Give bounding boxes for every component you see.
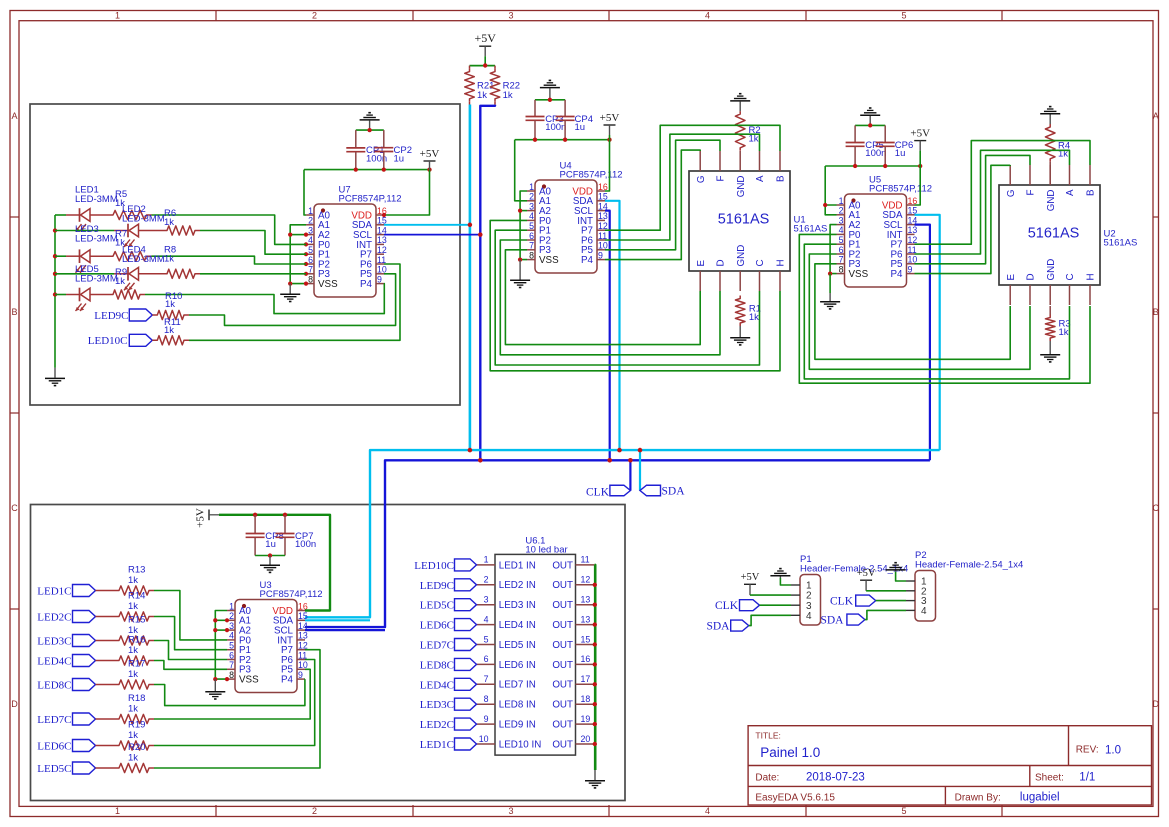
LED LED1 LED-3MM xyxy=(66,208,108,231)
wire SDA bus (blue horizontal) xyxy=(305,460,930,627)
svg-text:1k: 1k xyxy=(128,753,138,764)
led bar OUT pin 18 xyxy=(552,694,594,711)
label LED7C xyxy=(37,714,71,726)
op-amp U5 PCF8574P,112 xyxy=(837,175,933,288)
svg-text:OUT: OUT xyxy=(552,580,573,591)
svg-text:LED5 IN: LED5 IN xyxy=(499,640,536,651)
svg-text:G: G xyxy=(1006,190,1017,198)
LED LED4 LED-3MM xyxy=(114,267,162,290)
svg-text:10: 10 xyxy=(479,734,489,744)
svg-text:16: 16 xyxy=(581,654,591,664)
svg-text:TITLE:: TITLE: xyxy=(755,731,781,741)
svg-text:LED4C: LED4C xyxy=(420,679,454,691)
svg-text:3: 3 xyxy=(839,215,844,225)
svg-text:LED-3MM: LED-3MM xyxy=(75,194,118,205)
svg-text:10 led bar: 10 led bar xyxy=(525,545,567,556)
resistor R3 1k xyxy=(1045,306,1055,341)
svg-text:PCF8574P,112: PCF8574P,112 xyxy=(869,184,932,195)
capacitor CP4 1u xyxy=(556,100,593,140)
svg-text:LED-3MM: LED-3MM xyxy=(122,254,165,265)
node U7 bus VSS xyxy=(288,281,292,285)
ground (above R2) xyxy=(730,94,750,111)
svg-text:1: 1 xyxy=(115,11,120,21)
svg-text:F: F xyxy=(1026,189,1037,195)
label R8 xyxy=(164,245,176,265)
svg-text:8: 8 xyxy=(484,694,489,704)
svg-text:A: A xyxy=(1065,189,1076,196)
svg-text:8: 8 xyxy=(229,670,234,680)
svg-text:9: 9 xyxy=(298,670,303,680)
wire LED cathode bus (left) xyxy=(54,215,56,368)
node U7 pin5 xyxy=(304,252,308,256)
led bar OUT pin 11 xyxy=(552,555,594,572)
svg-text:LED3C: LED3C xyxy=(37,636,71,648)
svg-text:GND: GND xyxy=(736,176,747,198)
svg-text:8: 8 xyxy=(308,274,313,284)
svg-text:LED2C: LED2C xyxy=(420,719,454,731)
svg-text:PCF8574P,112: PCF8574P,112 xyxy=(560,170,623,181)
wire U3 ground bus xyxy=(215,611,227,680)
label R17 xyxy=(128,659,145,681)
net flag LED3C (led bar) xyxy=(455,698,477,710)
label LED1C (led bar) xyxy=(420,739,454,751)
led bar LED1 IN label xyxy=(499,560,536,571)
svg-text:1k: 1k xyxy=(165,299,175,310)
svg-text:+5V: +5V xyxy=(910,127,930,139)
wire LED1C to U3 P0 xyxy=(154,591,227,640)
svg-text:OUT: OUT xyxy=(552,739,573,750)
wire LED2 row left xyxy=(55,230,114,232)
svg-text:CLK: CLK xyxy=(715,600,739,612)
svg-text:LED8C: LED8C xyxy=(37,680,71,692)
svg-text:LED5C: LED5C xyxy=(37,763,71,775)
net flag LED1C xyxy=(73,585,96,597)
svg-text:OUT: OUT xyxy=(552,660,573,671)
svg-text:LED1C: LED1C xyxy=(420,739,454,751)
net flag LED6C xyxy=(73,740,96,752)
net flag LED5C xyxy=(73,762,96,774)
wire U4 P4 to U1 G xyxy=(605,150,700,260)
svg-text:13: 13 xyxy=(581,595,591,605)
svg-text:9: 9 xyxy=(377,274,382,284)
wire LED3 row left xyxy=(55,255,66,257)
node CP8 rail xyxy=(253,513,257,517)
label LED1 xyxy=(75,185,118,206)
wire U5 P0 to U2 H xyxy=(799,234,1090,383)
svg-text:LED5C: LED5C xyxy=(420,600,454,612)
svg-text:3: 3 xyxy=(508,806,513,816)
label R10 xyxy=(165,291,182,310)
ground (above R4) xyxy=(1040,107,1060,124)
svg-text:Date:: Date: xyxy=(755,773,779,784)
net flag LED7C (led bar) xyxy=(455,639,477,651)
svg-text:LED8C: LED8C xyxy=(420,659,454,671)
svg-text:5161AS: 5161AS xyxy=(1028,226,1080,242)
svg-text:GND: GND xyxy=(1046,259,1057,281)
led bar pin 8 stub xyxy=(477,694,496,704)
container box bottom-left U3/led-bar group xyxy=(31,505,626,801)
title block Drawn By xyxy=(955,793,1001,804)
wire +5V rail U3 xyxy=(219,515,330,611)
svg-text:LED10C: LED10C xyxy=(88,335,128,347)
title block frame xyxy=(748,726,1151,805)
svg-text:P4: P4 xyxy=(360,279,373,290)
svg-text:LED7C: LED7C xyxy=(420,640,454,652)
node cyan bus SDA xyxy=(638,448,643,453)
power flag +5V (U7) xyxy=(420,148,440,170)
svg-text:4: 4 xyxy=(705,806,710,816)
svg-text:SDA: SDA xyxy=(662,485,686,497)
svg-text:7: 7 xyxy=(229,660,234,670)
label LED10C xyxy=(88,335,128,347)
svg-text:VSS: VSS xyxy=(849,269,869,280)
wire LED2C to U3 P1 xyxy=(154,617,227,650)
node +5V rail U4 xyxy=(607,138,611,142)
node LED bus xyxy=(53,272,57,276)
node OUT bus xyxy=(593,682,597,686)
node CP4 rail xyxy=(563,138,567,142)
node CP1 rail xyxy=(354,167,358,171)
svg-text:LED-3MM: LED-3MM xyxy=(122,214,165,225)
svg-text:1: 1 xyxy=(308,206,313,216)
wire U4 P6 to U1 A xyxy=(605,134,760,240)
svg-text:+5V: +5V xyxy=(195,508,207,528)
svg-text:PCF8574P,112: PCF8574P,112 xyxy=(339,194,402,205)
node cyan bus R21 xyxy=(468,448,473,453)
svg-text:15: 15 xyxy=(581,634,591,644)
node U7 pin3 xyxy=(304,233,308,237)
svg-text:LED4C: LED4C xyxy=(37,656,71,668)
label LED3C (led bar) xyxy=(420,699,454,711)
wire U4 P7 to U1 B xyxy=(605,125,780,230)
svg-text:1u: 1u xyxy=(575,122,586,133)
wire CP5/CP6 top node xyxy=(855,124,885,126)
svg-text:B: B xyxy=(776,175,787,182)
svg-text:2: 2 xyxy=(839,206,844,216)
led bar OUT pin 13 xyxy=(552,614,594,631)
label LED3 xyxy=(75,224,118,245)
wire U5 SDA (cyan) xyxy=(915,215,940,450)
svg-text:3: 3 xyxy=(229,621,234,631)
label R19 xyxy=(128,720,145,742)
svg-text:LED8 IN: LED8 IN xyxy=(499,700,536,711)
label R20 xyxy=(128,742,145,764)
svg-text:CLK: CLK xyxy=(586,486,610,498)
svg-text:9: 9 xyxy=(908,264,913,274)
node U4 bus VSS xyxy=(518,257,522,261)
label R7 xyxy=(115,229,127,249)
wire U4 P5 to U1 F xyxy=(605,140,720,250)
label R1 xyxy=(749,304,761,324)
wire SDA flag drop (cyan) xyxy=(639,450,641,490)
svg-text:LED2C: LED2C xyxy=(37,612,71,624)
label R2 xyxy=(749,125,761,145)
svg-text:6: 6 xyxy=(484,654,489,664)
svg-text:8: 8 xyxy=(839,264,844,274)
svg-text:LED6C: LED6C xyxy=(37,741,71,753)
led bar LED4 IN label xyxy=(499,620,536,631)
led bar OUT pin 17 xyxy=(552,674,594,691)
svg-text:D: D xyxy=(716,259,727,266)
net flag LED2C xyxy=(73,611,96,623)
svg-text:LED6 IN: LED6 IN xyxy=(499,660,536,671)
label LED8C xyxy=(37,680,71,692)
svg-text:R17: R17 xyxy=(128,659,145,670)
net flag LED1C (led bar) xyxy=(455,738,477,750)
label LED4C xyxy=(37,656,71,668)
svg-text:OUT: OUT xyxy=(552,560,573,571)
title block Sheet xyxy=(1035,773,1064,784)
wire U3 SDA (cyan) xyxy=(305,619,370,621)
svg-text:LED9C: LED9C xyxy=(420,580,454,592)
svg-text:3: 3 xyxy=(508,11,513,21)
label R9 xyxy=(115,267,127,287)
node U7 pin16 xyxy=(382,213,386,217)
label R21 xyxy=(477,81,494,101)
svg-text:LED-3MM: LED-3MM xyxy=(75,234,118,245)
svg-text:1: 1 xyxy=(529,182,534,192)
label LED2C xyxy=(37,612,71,624)
ground (above CP1/CP2) xyxy=(360,113,380,130)
label CLK (bus) xyxy=(586,486,610,498)
wire U4 P3 to U1 E xyxy=(505,250,700,345)
svg-text:2018-07-23: 2018-07-23 xyxy=(806,772,865,784)
wire U5 P6 to U2 A xyxy=(915,150,1070,254)
node LED bus xyxy=(53,254,57,258)
wire LED10C to U7 P6 xyxy=(189,264,400,340)
node +5V/R21/R22 junction xyxy=(483,63,487,67)
label LED3C xyxy=(37,636,71,648)
node CP top stem xyxy=(367,128,371,132)
power flag +5V (U4) xyxy=(600,112,620,140)
svg-text:P4: P4 xyxy=(581,255,594,266)
resistor R21 1k xyxy=(465,66,475,105)
wire LED6C to U3 P6 xyxy=(154,660,315,746)
svg-text:LED7 IN: LED7 IN xyxy=(499,680,536,691)
wire U7 VDD pin16 to rail xyxy=(384,170,430,215)
svg-text:100n: 100n xyxy=(545,122,566,133)
node CP2 rail xyxy=(382,167,386,171)
svg-text:OUT: OUT xyxy=(552,620,573,631)
node CP5/6 stem xyxy=(868,123,872,127)
svg-text:LED4 IN: LED4 IN xyxy=(499,620,536,631)
led bar U6.1 box xyxy=(495,554,576,755)
led bar LED8 IN label xyxy=(499,700,536,711)
wire U5 A2/VSS ground bus xyxy=(830,225,836,274)
svg-text:6: 6 xyxy=(529,231,534,241)
ground (below R3) xyxy=(1040,341,1060,362)
svg-text:1k: 1k xyxy=(503,90,513,101)
net flag LED8C xyxy=(73,679,96,691)
label LED5C (led bar) xyxy=(420,600,454,612)
svg-text:17: 17 xyxy=(581,674,591,684)
svg-text:3: 3 xyxy=(484,595,489,605)
svg-text:+5V: +5V xyxy=(474,31,496,45)
wire LED9C to U7 P5 xyxy=(189,274,396,326)
led bar LED7 IN label xyxy=(499,680,536,691)
wire LED8C to U3 P4 xyxy=(154,679,305,706)
svg-text:B: B xyxy=(1086,189,1097,196)
svg-text:Drawn By:: Drawn By: xyxy=(955,793,1001,804)
ground (led bar) xyxy=(585,770,605,788)
svg-text:D: D xyxy=(11,699,18,709)
svg-text:7: 7 xyxy=(308,265,313,275)
node U7 pin7 xyxy=(304,272,308,276)
label SDA (bus) xyxy=(662,485,686,497)
net flag LED7C xyxy=(73,713,96,725)
label LED5 xyxy=(75,264,118,285)
svg-text:OUT: OUT xyxy=(552,640,573,651)
wire P1 pin3 to CLK xyxy=(760,604,792,606)
svg-text:5: 5 xyxy=(901,11,906,21)
node U7 pin8 xyxy=(304,282,308,286)
svg-text:OUT: OUT xyxy=(552,720,573,731)
LED LED2 LED-3MM xyxy=(114,224,162,247)
wire U4 P0 to U1 H xyxy=(490,220,780,370)
resistor R7 1k xyxy=(108,252,152,261)
ground (above CP5/CP6) xyxy=(860,108,880,125)
wire U3 SCL (blue) xyxy=(305,629,385,631)
svg-text:20: 20 xyxy=(581,734,591,744)
net flag SDA (P1) xyxy=(731,620,749,631)
svg-text:13: 13 xyxy=(298,631,308,641)
svg-text:100n: 100n xyxy=(295,539,316,550)
wire U5 P4 to U2 G xyxy=(915,165,1011,274)
led bar OUT pin 12 xyxy=(552,575,594,592)
svg-text:2: 2 xyxy=(529,192,534,202)
wire U5 A0/A1 to VDD rail xyxy=(825,166,836,215)
op-amp U7 PCF8574P,112 xyxy=(306,185,402,298)
svg-text:R15: R15 xyxy=(128,615,145,626)
wire led bar OUT bus xyxy=(593,565,596,770)
svg-text:A: A xyxy=(755,175,766,182)
svg-text:13: 13 xyxy=(377,235,387,245)
node OUT bus xyxy=(593,583,597,587)
svg-text:4: 4 xyxy=(705,11,710,21)
svg-text:2: 2 xyxy=(312,11,317,21)
svg-text:1k: 1k xyxy=(128,645,138,656)
wire LED1 to U7 P0 xyxy=(152,215,307,244)
wire SDA net (blue vertical R22 to bus) xyxy=(480,105,495,461)
title block Date value xyxy=(806,772,865,784)
svg-text:+5V: +5V xyxy=(420,148,440,160)
node blue bus R22 xyxy=(478,458,483,463)
svg-text:1: 1 xyxy=(115,806,120,816)
svg-text:B: B xyxy=(11,307,17,317)
svg-text:5161AS: 5161AS xyxy=(718,212,770,228)
node U5 A0 branch xyxy=(823,203,827,207)
resistor R9 1k xyxy=(108,290,145,299)
led bar LED6 IN label xyxy=(499,660,536,671)
title block Sheet value xyxy=(1079,772,1095,784)
wire P2 pin1 to ground xyxy=(896,572,906,581)
resistor R10 1k xyxy=(152,310,189,319)
led bar LED2 IN label xyxy=(499,580,536,591)
net flag LED5C (led bar) xyxy=(455,599,477,611)
svg-text:5: 5 xyxy=(229,641,234,651)
svg-text:+5V: +5V xyxy=(857,568,876,579)
led bar OUT pin 13 xyxy=(552,595,594,612)
node CP7 rail xyxy=(283,513,287,517)
label R3 xyxy=(1059,319,1071,339)
capacitor CP5 100n xyxy=(846,125,887,166)
svg-text:1k: 1k xyxy=(477,90,487,101)
svg-text:1k: 1k xyxy=(749,312,759,323)
wire LED4 row left xyxy=(55,273,114,275)
label LED7C (led bar) xyxy=(420,640,454,652)
svg-text:1u: 1u xyxy=(895,148,906,159)
node CP3 rail xyxy=(533,138,537,142)
svg-text:LED2 IN: LED2 IN xyxy=(499,580,536,591)
node U3 pin8 xyxy=(225,677,229,681)
svg-text:OUT: OUT xyxy=(552,600,573,611)
node SCL tap U7 xyxy=(478,232,483,237)
net flag SDA (P2) xyxy=(847,614,865,625)
svg-text:REV:: REV: xyxy=(1076,745,1099,756)
node OUT bus xyxy=(593,642,597,646)
led bar LED9 IN label xyxy=(499,720,536,731)
node U4 bus A2 xyxy=(518,208,522,212)
svg-text:1: 1 xyxy=(229,601,234,611)
connector P2 Header-Female-2.54_1x4 xyxy=(906,550,1023,621)
svg-text:+5V: +5V xyxy=(741,572,760,583)
net flag CLK (bus) xyxy=(610,485,631,496)
label LED2 xyxy=(122,204,165,225)
wire LED5C to U3 P7 xyxy=(154,650,320,768)
wire U7 SCL tap (blue) xyxy=(384,234,480,236)
svg-text:3: 3 xyxy=(308,225,313,235)
wire LED7C to U3 P5 xyxy=(154,669,310,719)
op-amp U4 PCF8574P,112 xyxy=(527,161,623,274)
resistor R19 1k xyxy=(96,741,155,750)
svg-text:C: C xyxy=(1153,503,1160,513)
title block Painel 1.0 xyxy=(760,745,820,760)
svg-text:1k: 1k xyxy=(164,325,174,336)
svg-text:+5V: +5V xyxy=(600,112,620,124)
label LED1C xyxy=(37,586,71,598)
led bar pin 5 stub xyxy=(477,634,496,644)
label R15 xyxy=(128,615,145,637)
svg-text:1k: 1k xyxy=(115,276,125,287)
wire P1 pin4 to SDA xyxy=(749,615,791,625)
wire P1 pin1 to ground xyxy=(780,578,791,585)
svg-text:12: 12 xyxy=(377,245,387,255)
svg-text:1.0: 1.0 xyxy=(1105,745,1121,757)
net flag SDA (bus) xyxy=(640,485,661,496)
wire U4 VDD pin16 to rail xyxy=(605,140,610,191)
net flag CLK (P2) xyxy=(856,595,876,606)
svg-text:LED9 IN: LED9 IN xyxy=(499,720,536,731)
title block REV xyxy=(1076,745,1099,756)
node LED bus xyxy=(53,292,57,296)
net flag LED4C (led bar) xyxy=(455,678,477,690)
wire U5 SCL (blue) xyxy=(915,225,930,461)
svg-text:R18: R18 xyxy=(128,693,145,704)
ground (U4 VSS) xyxy=(510,260,530,288)
svg-text:VSS: VSS xyxy=(318,279,338,290)
svg-text:9: 9 xyxy=(598,250,603,260)
svg-text:18: 18 xyxy=(581,694,591,704)
title block REV value xyxy=(1105,745,1121,757)
wire SCL bus (cyan horizontal) xyxy=(305,450,940,617)
node CP bottom stem xyxy=(268,553,272,557)
label R22 xyxy=(503,81,520,101)
label LED4 xyxy=(122,245,165,266)
power flag +5V (top) xyxy=(474,31,496,65)
ground (below R1) xyxy=(730,326,750,345)
svg-text:R16: R16 xyxy=(128,635,145,646)
led bar OUT pin 16 xyxy=(552,654,594,671)
